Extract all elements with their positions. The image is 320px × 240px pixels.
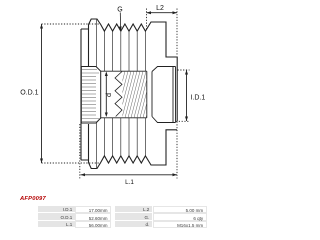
I.D.1 dimension bbox=[186, 70, 188, 121]
part number header bbox=[20, 196, 46, 202]
bore right edge bbox=[146, 71, 148, 118]
spec table left column bbox=[0, 0, 1, 1]
technical drawing of freewheel alternator pulley bbox=[0, 0, 228, 228]
sleeve (inner race) bbox=[152, 67, 176, 123]
svg-text:d: d bbox=[104, 93, 113, 97]
L2/L1 right extension (dotted) bbox=[176, 9, 178, 57]
dotted O.D.1 top extension line bbox=[42, 23, 101, 25]
svg-text:L.1: L.1 bbox=[125, 179, 134, 186]
I.D.1 dotted connectors bbox=[178, 69, 190, 71]
dotted O.D.1 bottom extension line bbox=[42, 162, 101, 164]
front-view vertical lines (groove valleys) bbox=[97, 19, 146, 169]
bore bottom line bbox=[101, 117, 147, 119]
svg-text:O.D.1: O.D.1 bbox=[20, 90, 38, 97]
svg-text:L2: L2 bbox=[156, 5, 164, 12]
body silhouette outline bbox=[81, 19, 177, 169]
internal thread zigzag bbox=[115, 72, 122, 117]
G leader arrow bbox=[119, 13, 121, 27]
L2 dimension line bbox=[147, 12, 178, 14]
spec table right column bbox=[0, 0, 1, 1]
hub horizontal hatch bbox=[82, 70, 99, 122]
L2 left extension (dotted) bbox=[146, 9, 148, 31]
bore top line bbox=[101, 70, 147, 72]
thread diagonal hatch bbox=[110, 71, 158, 118]
L1 left extension (dotted) bbox=[79, 124, 81, 179]
O.D.1 dimension line bbox=[41, 24, 43, 163]
svg-text:G: G bbox=[117, 7, 122, 14]
L1 dimension line bbox=[81, 174, 178, 176]
O.D.1 arrowheads bbox=[40, 24, 43, 29]
d dimension (thread) bbox=[105, 73, 107, 116]
hub block (sectioned) bbox=[81, 67, 100, 124]
svg-text:I.D.1: I.D.1 bbox=[191, 95, 206, 102]
